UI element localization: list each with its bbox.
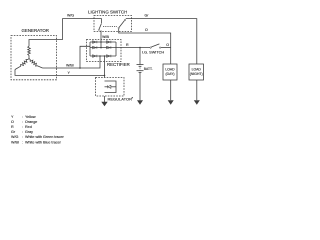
svg-text:Gr: Gr	[145, 14, 150, 18]
svg-text:W/Bl: W/Bl	[102, 35, 109, 39]
svg-text:Y: Y	[68, 71, 71, 75]
svg-text:White with Green tracer: White with Green tracer	[25, 135, 65, 139]
svg-text:R: R	[11, 125, 14, 129]
svg-text:W/G: W/G	[67, 14, 74, 18]
svg-text:LOAD: LOAD	[165, 67, 175, 71]
svg-text::: :	[22, 120, 23, 124]
svg-text:W/Bl: W/Bl	[66, 63, 74, 67]
svg-text:Orange: Orange	[25, 120, 37, 124]
svg-text:Yellow: Yellow	[25, 115, 36, 119]
svg-text:White with Blue tracer: White with Blue tracer	[25, 140, 62, 144]
svg-text:O: O	[11, 120, 14, 124]
svg-text::: :	[22, 140, 23, 144]
svg-text::: :	[22, 125, 23, 129]
svg-text:Y: Y	[11, 115, 14, 119]
svg-text:Gray: Gray	[25, 130, 33, 134]
svg-text:GENERATOR: GENERATOR	[22, 28, 49, 33]
svg-text:(NIGHT): (NIGHT)	[190, 72, 203, 76]
svg-text::: :	[22, 135, 23, 139]
svg-text:Red: Red	[25, 125, 32, 129]
svg-text:LIGHTING SWITCH: LIGHTING SWITCH	[88, 9, 127, 14]
svg-text:Gr: Gr	[11, 130, 16, 134]
svg-text:*: *	[132, 95, 134, 100]
svg-text:BATT.: BATT.	[144, 67, 153, 71]
svg-text::: :	[22, 130, 23, 134]
svg-text:W/Bl: W/Bl	[11, 140, 19, 144]
svg-text:RECTIFIER: RECTIFIER	[107, 62, 130, 67]
svg-text:O: O	[145, 28, 148, 32]
svg-text:W/G: W/G	[11, 135, 19, 139]
svg-text::: :	[22, 115, 23, 119]
svg-text:REGULATOR: REGULATOR	[108, 96, 133, 101]
svg-text:(DAY): (DAY)	[166, 72, 175, 76]
svg-text:O: O	[166, 43, 169, 47]
svg-text:R: R	[126, 43, 129, 47]
svg-text:LOAD: LOAD	[192, 67, 202, 71]
svg-text:I.G. SWITCH: I.G. SWITCH	[142, 50, 164, 54]
